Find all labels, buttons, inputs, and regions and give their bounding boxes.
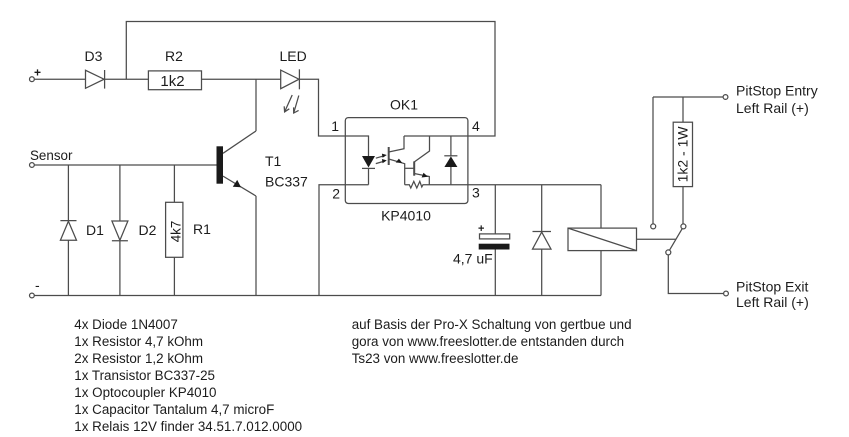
terminal + (plus input) <box>30 66 42 82</box>
svg-text:4: 4 <box>472 118 480 134</box>
wire R2 to LED <box>202 78 281 80</box>
svg-text:3: 3 <box>472 185 480 201</box>
capacitor C1 4,7uF <box>453 185 510 296</box>
wire junction to top loop <box>126 22 495 137</box>
terminal minus <box>30 277 41 298</box>
wire exit <box>668 255 723 294</box>
svg-text:BC337: BC337 <box>265 174 308 190</box>
wire collector node to rail <box>255 79 257 131</box>
resistor R2 <box>148 48 201 90</box>
svg-text:4,7 uF: 4,7 uF <box>453 250 493 266</box>
wire plus terminal to D3 <box>34 78 85 80</box>
diode D2 <box>112 165 157 296</box>
transistor Q1 phototransistor <box>389 136 405 185</box>
op-amp OK1 optocoupler box <box>331 96 480 223</box>
terminal PitStop Exit <box>724 279 809 311</box>
svg-text:1x Transistor BC337-25: 1x Transistor BC337-25 <box>74 368 215 383</box>
relay K1 coil <box>568 185 637 296</box>
wire pin 2 external to bottom rail <box>319 185 345 296</box>
svg-text:1x Capacitor Tantalum 4,7 micr: 1x Capacitor Tantalum 4,7 microF <box>74 402 274 417</box>
credits text <box>352 317 632 366</box>
svg-text:1: 1 <box>331 118 339 134</box>
svg-text:PitStop Entry: PitStop Entry <box>736 83 818 99</box>
svg-text:D2: D2 <box>139 222 157 238</box>
svg-text:1x Optocoupler KP4010: 1x Optocoupler KP4010 <box>74 385 216 400</box>
svg-text:-: - <box>35 277 40 293</box>
diode D1 <box>60 165 104 296</box>
switch contact left <box>651 97 656 229</box>
svg-text:Ts23 von www.freeslotter.de: Ts23 von www.freeslotter.de <box>352 351 519 366</box>
svg-text:R2: R2 <box>165 48 183 64</box>
flyback diode D4 <box>533 185 552 296</box>
svg-text:Left Rail (+): Left Rail (+) <box>736 294 809 310</box>
wire D3 to R2 <box>105 78 149 80</box>
svg-text:4x Diode 1N4007: 4x Diode 1N4007 <box>74 317 177 332</box>
wire pin 1 internal <box>345 136 368 156</box>
internal top rail to pin 4 <box>404 135 468 137</box>
svg-text:gora von www.freeslotter.de en: gora von www.freeslotter.de entstanden d… <box>352 334 624 349</box>
light arrows <box>376 154 387 164</box>
svg-text:+: + <box>478 223 484 235</box>
svg-text:1x Resistor 4,7 kOhm: 1x Resistor 4,7 kOhm <box>74 334 203 349</box>
terminal Sensor <box>30 148 73 168</box>
LED <box>280 48 307 113</box>
wire LED to OK1 pin 1 <box>299 79 345 136</box>
terminal PitStop Entry <box>723 83 818 116</box>
svg-text:1x Relais 12V finder 34.51.7.0: 1x Relais 12V finder 34.51.7.012.0000 <box>74 419 302 434</box>
wire entry rail <box>653 96 723 98</box>
svg-text:1k2 - 1W: 1k2 - 1W <box>675 126 691 183</box>
diode D3 <box>85 48 105 89</box>
internal resistor zigzag and bottom rail to pin 3 <box>405 181 468 188</box>
svg-text:auf Basis der Pro-X Schaltung: auf Basis der Pro-X Schaltung von gertbu… <box>352 317 632 332</box>
svg-text:Sensor: Sensor <box>30 148 73 163</box>
resistor 1k2-1W branch <box>673 97 692 229</box>
svg-text:LED: LED <box>280 48 307 64</box>
svg-text:D3: D3 <box>85 48 103 64</box>
internal diode of OK1 <box>444 136 457 185</box>
resistor R1 <box>166 165 212 296</box>
wire pin 2 internal <box>345 184 368 186</box>
svg-text:+: + <box>34 66 41 80</box>
transistor Q2 output darlington <box>405 136 430 185</box>
transistor T1 <box>217 131 309 196</box>
wire sensor rail <box>34 164 216 166</box>
wire pin 3 external rail <box>468 184 601 186</box>
switch contact lower <box>666 250 671 255</box>
parts list text <box>74 317 302 434</box>
wire relay to switch pole <box>637 238 676 240</box>
svg-text:R1: R1 <box>193 221 211 237</box>
wire bottom rail <box>34 295 601 297</box>
svg-text:1k2: 1k2 <box>160 73 184 90</box>
internal LED of OK1 <box>362 156 375 185</box>
switch armature <box>670 229 683 250</box>
svg-text:OK1: OK1 <box>390 96 418 112</box>
svg-text:PitStop Exit: PitStop Exit <box>736 279 808 295</box>
wire emitter to bottom rail <box>255 196 257 296</box>
svg-text:2x Resistor 1,2 kOhm: 2x Resistor 1,2 kOhm <box>74 351 203 366</box>
svg-text:KP4010: KP4010 <box>381 208 431 224</box>
svg-text:2: 2 <box>332 186 340 202</box>
svg-text:T1: T1 <box>265 153 282 169</box>
svg-text:D1: D1 <box>86 222 104 238</box>
svg-text:Left Rail (+): Left Rail (+) <box>736 100 809 116</box>
svg-text:4k7: 4k7 <box>168 221 183 243</box>
